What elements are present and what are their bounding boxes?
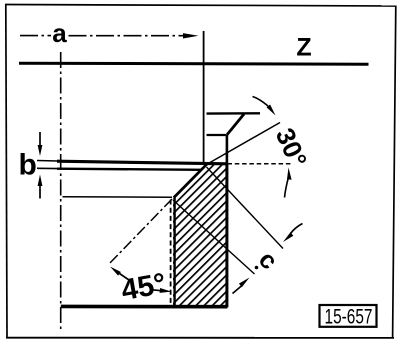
- b lower line thin tail: [37, 167, 58, 169]
- cylinder head surface line Z: [19, 62, 369, 66]
- border frame right: [393, 6, 396, 338]
- c upper curved leader: [291, 224, 303, 234]
- 30deg upper arc arrowhead: [267, 105, 276, 116]
- upper right edge of bore: [226, 135, 229, 166]
- border frame top: [5, 5, 396, 7]
- seat insert left edge: [173, 197, 175, 307]
- svg-text:b: b: [19, 149, 37, 182]
- b upper arrow shaft: [39, 132, 41, 147]
- c upper arrowhead (down-left): [283, 232, 293, 242]
- arrowhead of dimension a: [183, 33, 199, 38]
- bottom thick line of section: [61, 305, 228, 309]
- 45deg left arc tail: [120, 274, 130, 281]
- figure number box: [320, 305, 377, 327]
- seat top surface thick line (b upper, thin tail): [37, 160, 58, 163]
- dash-dot dot of line B: [255, 266, 259, 270]
- 45deg dash-dot extension line: [109, 199, 172, 264]
- vertical centerline (dash-dot): [60, 52, 62, 330]
- dimension line a (dash-dot shaft left of label): [20, 35, 51, 37]
- hatching of seat insert: [150, 140, 260, 330]
- seat top surface thick line (b upper): [57, 161, 227, 164]
- inner bore line: [63, 196, 173, 198]
- dimension line a (dash-dot shaft right of label): [69, 35, 185, 37]
- b upper arrowhead (down): [38, 145, 43, 156]
- b lower line: [57, 169, 202, 170]
- dashed original profile line: [170, 200, 172, 307]
- c extension line B: [173, 200, 255, 274]
- border frame left: [6, 5, 7, 338]
- break-edge diagonal (hook): [227, 114, 244, 135]
- top surface line of port: [207, 112, 261, 115]
- b lower arrow shaft: [39, 184, 41, 199]
- c extension line A: [207, 167, 284, 249]
- svg-text:15-657: 15-657: [325, 305, 373, 329]
- 45deg right arrowhead: [160, 288, 172, 293]
- 30deg ray (chamfer direction): [207, 123, 281, 165]
- seat insert chamfer edge (45 deg face): [174, 164, 207, 197]
- 45deg left arrowhead: [110, 267, 121, 276]
- upper chamber line: [207, 134, 227, 136]
- c lower arrow shaft: [233, 286, 243, 294]
- border frame bottom: [6, 337, 394, 339]
- 30deg upper arc: [253, 97, 269, 107]
- svg-text:Z: Z: [296, 34, 311, 62]
- svg-text:a: a: [52, 18, 67, 48]
- b lower arrowhead (up): [38, 175, 43, 187]
- 45deg right arc tail: [153, 289, 162, 292]
- 30deg lower arc arrowhead (up): [287, 168, 292, 180]
- 30deg lower arc: [285, 176, 289, 198]
- seat insert right edge: [225, 164, 228, 308]
- vertical extension line at valve guide axis: [203, 31, 205, 163]
- 30deg dashed horizontal ray: [228, 163, 292, 165]
- c lower arrowhead (up-right): [239, 278, 250, 288]
